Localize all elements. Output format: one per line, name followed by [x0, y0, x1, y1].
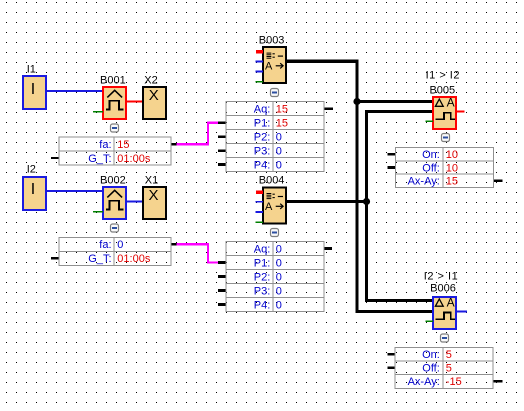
parameter box B003 [218, 102, 333, 172]
svg-text:X: X [148, 187, 158, 204]
svg-text:P1:: P1: [254, 118, 271, 130]
collapse button B005 [442, 134, 450, 142]
pin Par B004 [256, 221, 263, 223]
svg-text:Off:: Off: [422, 162, 440, 174]
pin S2 B004 [256, 211, 263, 213]
svg-text:G_T:: G_T: [88, 153, 111, 165]
svg-text:0: 0 [276, 271, 282, 283]
svg-text:01:00s: 01:00s [117, 253, 151, 265]
svg-text:15: 15 [276, 118, 288, 130]
svg-text:On:: On: [422, 149, 440, 161]
wire B001 to X2 [126, 101, 143, 103]
svg-text:-15: -15 [446, 376, 462, 388]
svg-text:0: 0 [276, 145, 282, 157]
connector X2 [143, 74, 166, 119]
svg-text:01:00s: 01:00s [117, 153, 151, 165]
svg-text:I: I [31, 81, 35, 98]
parameter box B002 fa/G_T [51, 237, 177, 265]
input I1 [23, 63, 46, 109]
pin Par B003 [256, 81, 263, 83]
parameter box B006 [388, 347, 503, 388]
svg-text:A: A [265, 201, 273, 213]
svg-text:0: 0 [276, 299, 282, 311]
wire B002 to X1 [126, 201, 143, 203]
reference line B002.fa to B004.P1 [177, 244, 221, 262]
wire B003 output to B005.In1 and B006.In2 [286, 61, 433, 311]
svg-text:X2: X2 [144, 74, 157, 86]
svg-text:P3:: P3: [254, 285, 271, 297]
output stub B005 [456, 111, 465, 113]
svg-text:X: X [149, 87, 159, 104]
parameter box B001 fa/G_T [51, 137, 177, 165]
wire B004 output to B005.In2 and B006.In1 [286, 112, 433, 301]
collapse button B004 [271, 229, 279, 237]
svg-text:I2 > I1: I2 > I1 [424, 271, 458, 283]
svg-text:A: A [265, 61, 273, 73]
output stub B006 [456, 311, 467, 313]
svg-text:0: 0 [276, 285, 282, 297]
svg-text:Off:: Off: [422, 363, 440, 375]
collapse button B001 [111, 124, 119, 132]
collapse button B006 [441, 334, 449, 342]
svg-text:Ax-Ay:: Ax-Ay: [408, 176, 440, 188]
analog comparator B005 [425, 69, 464, 129]
pin S1 B003 [256, 60, 263, 62]
input I2 [23, 163, 46, 210]
svg-text:A: A [447, 295, 455, 309]
svg-text:fa:: fa: [99, 239, 111, 251]
svg-text:B004: B004 [259, 174, 285, 186]
pin En B003 [256, 50, 263, 53]
svg-text:B001: B001 [100, 74, 126, 86]
svg-text:0: 0 [117, 239, 123, 251]
pin S2 B003 [256, 71, 263, 73]
svg-text:0: 0 [276, 159, 282, 171]
svg-text:P2:: P2: [254, 132, 271, 144]
threshold trigger B002 [93, 174, 126, 219]
svg-text:0: 0 [276, 132, 282, 144]
svg-text:On:: On: [422, 349, 440, 361]
reference line B001.fa to B003.P1 [177, 123, 221, 145]
svg-text:P4:: P4: [254, 159, 271, 171]
svg-text:P4:: P4: [254, 299, 271, 311]
pin S1 B004 [256, 201, 263, 203]
junction B003 branch [353, 98, 360, 105]
svg-text:15: 15 [117, 139, 129, 151]
svg-text:X1: X1 [145, 174, 158, 186]
parameter box B004 [218, 242, 332, 312]
svg-text:15: 15 [446, 176, 458, 188]
svg-text:P3:: P3: [254, 145, 271, 157]
svg-text:Aq:: Aq: [254, 103, 271, 115]
svg-text:A: A [447, 95, 455, 109]
svg-text:I2: I2 [27, 163, 36, 175]
svg-text:P1:: P1: [254, 257, 271, 269]
svg-text:0: 0 [276, 257, 282, 269]
pin Par B006 [426, 320, 434, 322]
pin Par B005 [425, 120, 433, 122]
parameter box B005 [388, 148, 503, 188]
svg-text:10: 10 [446, 162, 458, 174]
svg-text:B003: B003 [259, 34, 285, 46]
svg-text:Ax-Ay:: Ax-Ay: [408, 376, 440, 388]
svg-text:G_T:: G_T: [88, 253, 111, 265]
pin En B004 [256, 191, 263, 194]
svg-text:10: 10 [446, 149, 458, 161]
svg-text:15: 15 [276, 103, 288, 115]
analog multiplexer B003 [256, 34, 286, 83]
svg-text:P2:: P2: [254, 271, 271, 283]
wire I2 to B002 [46, 190, 103, 192]
svg-text:B002: B002 [100, 174, 126, 186]
svg-text:5: 5 [446, 349, 452, 361]
svg-text:Aq:: Aq: [254, 243, 271, 255]
connector X1 [143, 174, 166, 219]
svg-text:0: 0 [276, 243, 282, 255]
svg-text:I1: I1 [27, 63, 36, 75]
wire I1 to B001 [46, 90, 103, 92]
svg-text:fa:: fa: [99, 139, 111, 151]
svg-text:I1 > I2: I1 > I2 [426, 69, 460, 81]
junction B004 branch [363, 198, 370, 205]
svg-text:I: I [31, 181, 35, 198]
threshold trigger B001 [93, 74, 126, 119]
svg-text:5: 5 [446, 363, 452, 375]
svg-text:B006: B006 [430, 283, 456, 295]
collapse button B002 [111, 224, 119, 232]
collapse button B003 [271, 89, 279, 97]
analog comparator B006 [424, 271, 467, 330]
analog multiplexer B004 [256, 174, 286, 223]
